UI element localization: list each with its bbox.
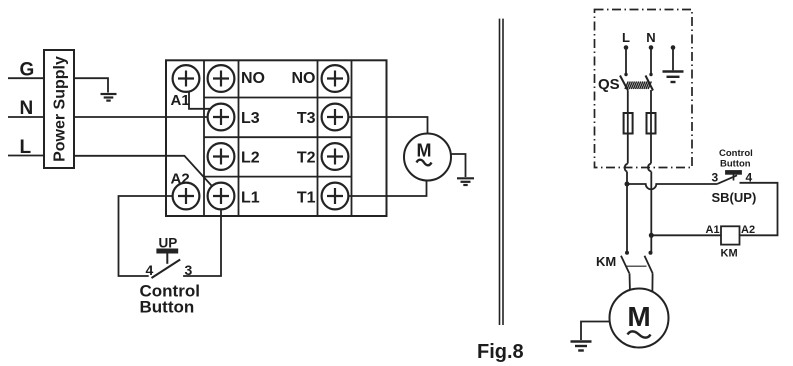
svg-text:Fig.8: Fig.8 xyxy=(477,341,524,363)
wire A2 to control button 4 xyxy=(119,196,187,276)
KM contact linkage xyxy=(626,265,647,267)
control button blade xyxy=(152,260,181,279)
junction dot at right pole xyxy=(649,233,654,238)
svg-text:3: 3 xyxy=(712,171,719,185)
wire N pole top xyxy=(650,48,652,75)
terminal dot L xyxy=(624,45,629,50)
svg-text:NO: NO xyxy=(241,70,265,87)
wire button 4 to KM coil A2 xyxy=(740,183,778,236)
wire L pole top xyxy=(625,48,627,75)
svg-text:NO: NO xyxy=(292,70,316,87)
QS blade right xyxy=(646,76,654,91)
junction dot at left pole xyxy=(625,182,630,187)
terminal block column line 3 xyxy=(317,60,319,216)
dashed enclosure box QS xyxy=(595,10,693,168)
ground in QS box xyxy=(672,48,674,71)
wire L input xyxy=(8,155,44,157)
wire G to ground xyxy=(74,78,108,92)
screw terminal L3 xyxy=(208,104,235,131)
screw terminal A1 xyxy=(173,65,200,92)
svg-text:T3: T3 xyxy=(297,110,316,127)
svg-text:Button: Button xyxy=(720,159,751,170)
fuse FU2 xyxy=(647,113,656,134)
KM contact blade left xyxy=(621,256,629,273)
screw terminal A2 xyxy=(173,183,200,210)
KM contact dot right xyxy=(649,251,653,255)
wire N pole to KM contact xyxy=(650,172,652,253)
KM coil box xyxy=(721,226,740,244)
control button UP actuator xyxy=(157,249,177,263)
KM contact blade right xyxy=(645,256,653,273)
svg-text:SB(UP): SB(UP) xyxy=(712,190,757,205)
figure separator double line xyxy=(500,19,504,325)
svg-text:T1: T1 xyxy=(297,190,316,207)
KM contact dot left xyxy=(625,251,629,255)
svg-text:Power Supply: Power Supply xyxy=(52,56,69,162)
ground motor-left xyxy=(457,178,474,185)
motor M1 circle xyxy=(404,134,451,181)
svg-text:M: M xyxy=(627,301,650,332)
wire N pole through fuse xyxy=(650,90,652,164)
svg-text:4: 4 xyxy=(746,171,753,185)
terminal block row line 3 xyxy=(204,176,352,178)
wire N to L3 terminal xyxy=(74,116,221,118)
wire KM to motor left xyxy=(629,273,632,300)
motor M2 circle xyxy=(610,289,669,348)
motor M2 tilde xyxy=(628,331,651,337)
svg-text:L: L xyxy=(20,137,32,158)
svg-text:Button: Button xyxy=(140,298,195,317)
svg-text:G: G xyxy=(20,60,35,81)
svg-text:KM: KM xyxy=(596,254,616,269)
screw terminal T3 xyxy=(322,104,349,131)
wire L to L1 terminal xyxy=(74,156,221,196)
control button actuator right-diagram xyxy=(726,171,741,181)
screw terminal NO-right xyxy=(322,65,349,92)
svg-text:3: 3 xyxy=(185,262,193,278)
wire T3 to motor xyxy=(335,117,428,157)
terminal block column line 2 xyxy=(238,60,240,216)
svg-text:Control: Control xyxy=(719,148,753,159)
terminal dot ground xyxy=(671,45,676,50)
svg-text:KM: KM xyxy=(721,248,738,260)
svg-text:N: N xyxy=(646,30,655,45)
QS linkage hatch xyxy=(625,82,651,90)
terminal dot N xyxy=(649,45,654,50)
svg-text:L1: L1 xyxy=(241,190,260,207)
svg-text:T2: T2 xyxy=(297,150,316,167)
control button blade right-diagram xyxy=(718,175,738,184)
wire N input xyxy=(8,116,44,118)
svg-text:M: M xyxy=(417,141,432,161)
svg-text:A2: A2 xyxy=(171,171,190,188)
screw terminal L1 xyxy=(208,183,235,210)
svg-text:L3: L3 xyxy=(241,110,260,127)
screw terminal T1 xyxy=(322,183,349,210)
screw terminal T2 xyxy=(322,143,349,170)
motor M1 tilde xyxy=(417,160,432,166)
wire control button 3 to L1 xyxy=(183,196,221,276)
screw terminal NO-left xyxy=(208,65,235,92)
terminal block column line 1 xyxy=(203,60,205,216)
svg-text:L: L xyxy=(622,30,630,45)
wire KM to motor right xyxy=(651,273,653,300)
wire T1 to motor xyxy=(335,157,427,196)
wire L pole through fuse xyxy=(627,91,629,164)
wire jumper A1 to L3 xyxy=(189,79,221,109)
svg-text:UP: UP xyxy=(159,236,178,251)
wire L pole to KM contact xyxy=(626,172,628,253)
svg-text:L2: L2 xyxy=(241,150,260,167)
svg-text:A1: A1 xyxy=(706,224,720,236)
QS blade left xyxy=(620,76,628,91)
terminal block outer box xyxy=(166,60,387,216)
terminal block row line 2 xyxy=(204,136,352,138)
wire motor to ground xyxy=(428,154,466,177)
ground power-supply xyxy=(101,94,117,101)
wire motor to ground right-diagram xyxy=(581,322,639,341)
svg-text:A2: A2 xyxy=(741,224,755,236)
QS pivot dot left xyxy=(624,73,627,76)
wire hop left at dashed border xyxy=(625,164,628,172)
wire KM coil A1 to N pole xyxy=(651,234,721,236)
power supply box xyxy=(44,50,74,168)
terminal block column line 4 xyxy=(351,60,353,216)
screw terminal L2 xyxy=(208,143,235,170)
svg-text:A1: A1 xyxy=(171,92,190,109)
ground motor-right xyxy=(571,342,592,351)
svg-text:N: N xyxy=(20,98,34,119)
wire to control button with hop xyxy=(627,184,718,189)
svg-text:QS: QS xyxy=(598,76,620,93)
svg-text:4: 4 xyxy=(146,262,154,278)
wire G input xyxy=(8,77,44,79)
terminal block row line 1 xyxy=(204,97,352,99)
fuse FU1 xyxy=(624,113,633,134)
QS pivot dot right xyxy=(649,73,652,76)
wire hop right at dashed border xyxy=(648,164,651,172)
